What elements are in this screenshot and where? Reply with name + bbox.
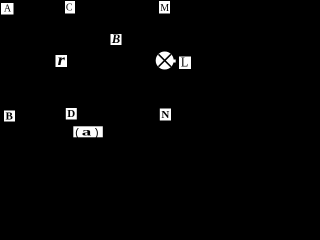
svg-text:a: a	[82, 124, 92, 138]
terminal A label	[1, 3, 14, 15]
svg-text:A: A	[4, 4, 12, 15]
wire middle rheostat branch C-D	[69, 9, 71, 115]
figure caption (a)	[73, 124, 103, 140]
svg-text:B: B	[6, 110, 14, 122]
svg-text:N: N	[161, 109, 169, 121]
terminal C label	[65, 1, 75, 14]
terminal M label	[159, 1, 170, 14]
svg-text:(: (	[74, 128, 81, 140]
svg-text:L: L	[181, 54, 188, 69]
terminal N label	[160, 109, 171, 122]
wire top A-C-M	[7, 8, 164, 10]
terminal B label	[4, 110, 15, 122]
lamp L label	[179, 54, 191, 69]
lamp L symbol	[156, 52, 176, 70]
svg-text:): )	[93, 128, 100, 140]
wire right lamp branch M-N	[164, 9, 166, 115]
rheostat r label	[56, 52, 68, 69]
wire left battery branch A-B	[6, 9, 8, 115]
svg-text:D: D	[67, 108, 75, 120]
svg-text:r: r	[58, 52, 66, 69]
svg-text:C: C	[66, 2, 73, 13]
svg-text:B: B	[111, 32, 120, 46]
wire bottom B-D-N	[7, 114, 166, 116]
terminal D label	[66, 108, 77, 120]
battery B label	[111, 32, 122, 46]
svg-text:M: M	[160, 3, 169, 14]
